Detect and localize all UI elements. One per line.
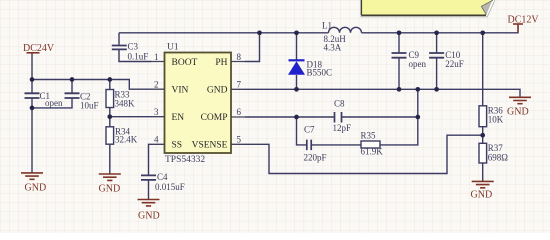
ground under R34 bbox=[99, 174, 121, 180]
svg-text:U1: U1 bbox=[167, 43, 179, 53]
svg-text:5: 5 bbox=[237, 135, 242, 145]
svg-text:7: 7 bbox=[237, 80, 242, 90]
resistor R37 bbox=[479, 143, 508, 163]
wire: DC24V input rail bbox=[31, 53, 33, 80]
ground under C1/C2 bbox=[21, 173, 43, 179]
svg-text:VSENSE: VSENSE bbox=[192, 141, 228, 151]
capacitor C9 bbox=[392, 50, 427, 69]
capacitor C10 bbox=[429, 50, 464, 69]
svg-text:10K: 10K bbox=[488, 115, 504, 125]
wire: R37 bottom to GND bbox=[482, 163, 484, 181]
svg-text:DC12V: DC12V bbox=[508, 15, 540, 26]
wire: PH pin 8 up to rail bbox=[245, 33, 260, 62]
wire: output rail from L1 to DC12V corner bbox=[362, 25, 519, 33]
resistor R33 bbox=[106, 90, 135, 109]
wire: C9 leads bbox=[398, 33, 400, 90]
svg-text:VIN: VIN bbox=[172, 85, 189, 95]
svg-text:GND: GND bbox=[507, 107, 529, 118]
wire: C2 top lead bbox=[71, 80, 73, 93]
svg-text:TPS54332: TPS54332 bbox=[165, 155, 205, 165]
svg-text:61.9K: 61.9K bbox=[361, 147, 384, 157]
svg-text:BOOT: BOOT bbox=[172, 58, 198, 68]
wire: C10 leads bbox=[436, 33, 438, 90]
wire: R33 bottom to EN junction bbox=[109, 108, 111, 127]
wire: C3 top lead bbox=[118, 33, 120, 45]
svg-text:0.1uF: 0.1uF bbox=[128, 52, 149, 62]
wire: SS pin 4 to C4 bbox=[149, 144, 152, 175]
resistor R34 bbox=[106, 127, 138, 145]
wire: comp junction down to R35 bbox=[380, 117, 418, 145]
svg-text:220pF: 220pF bbox=[304, 153, 327, 163]
svg-text:PH: PH bbox=[215, 58, 227, 68]
wire: comp junction up to GND net bbox=[417, 89, 419, 117]
inductor L1 bbox=[322, 21, 362, 53]
svg-text:R37: R37 bbox=[488, 143, 504, 153]
svg-text:L1: L1 bbox=[322, 21, 332, 31]
resistor R35 bbox=[361, 131, 384, 157]
svg-text:open: open bbox=[409, 59, 427, 69]
wire: R36 bottom to fb junction bbox=[482, 127, 484, 144]
svg-text:B550C: B550C bbox=[307, 68, 333, 78]
wire: VSENSE pin 5 feedback bbox=[245, 135, 483, 173]
wire: C7 right to R35 left bbox=[311, 144, 361, 146]
svg-text:8: 8 bbox=[237, 52, 242, 62]
wire: C7 branch from COMP bbox=[297, 117, 307, 145]
wire: R34 bottom to GND bbox=[109, 144, 111, 173]
wire: DC12V port lead bbox=[517, 24, 519, 33]
pin stubs bbox=[152, 62, 246, 145]
wire: R36 top lead from rail bbox=[482, 33, 484, 106]
svg-text:C3: C3 bbox=[128, 42, 139, 52]
svg-text:GND: GND bbox=[138, 211, 160, 222]
wire: D18 bottom lead bbox=[296, 75, 298, 89]
svg-text:C4: C4 bbox=[157, 172, 168, 182]
note (yellow sticky, top right, cut off) bbox=[361, 0, 495, 17]
wire: C2 bottom to junction bbox=[32, 99, 72, 173]
svg-text:1: 1 bbox=[154, 52, 159, 62]
svg-text:GND: GND bbox=[99, 184, 121, 195]
wire: C1 bottom to gnd junction bbox=[31, 99, 33, 108]
capacitor C3 bbox=[112, 42, 148, 62]
wire: EN junction to pin 3 bbox=[110, 116, 152, 118]
capacitor C8 bbox=[333, 99, 352, 134]
ground right of pin7 net bbox=[509, 97, 531, 103]
ground under C4 bbox=[138, 200, 160, 206]
diode D18 bbox=[288, 60, 332, 78]
capacitor C4 bbox=[141, 172, 185, 192]
svg-text:EN: EN bbox=[172, 113, 185, 123]
svg-text:GND: GND bbox=[207, 85, 228, 95]
wire: C4 bottom to GND bbox=[148, 180, 150, 199]
svg-text:10uF: 10uF bbox=[80, 101, 99, 111]
svg-text:open: open bbox=[45, 98, 63, 108]
op IC U1 TPS54332 bbox=[152, 43, 246, 166]
svg-text:4.3A: 4.3A bbox=[324, 43, 342, 53]
svg-text:0.015uF: 0.015uF bbox=[155, 182, 185, 192]
wire: C8 right to comp junction bbox=[342, 116, 418, 118]
wire: C3 bottom to BOOT pin 1 bbox=[119, 50, 152, 62]
svg-text:C7: C7 bbox=[304, 125, 315, 135]
svg-text:6: 6 bbox=[237, 107, 242, 117]
power port DC24V bbox=[23, 43, 55, 54]
ground under R37 bbox=[472, 181, 494, 187]
svg-text:698Ω: 698Ω bbox=[488, 153, 509, 163]
wire: 24V rail to VIN pin 2 bbox=[32, 80, 152, 90]
svg-text:COMP: COMP bbox=[201, 113, 228, 123]
capacitor C7 bbox=[304, 125, 327, 163]
wire: PH/top rail from C3 to L1 bbox=[119, 32, 329, 34]
svg-text:SS: SS bbox=[172, 141, 183, 151]
svg-text:C8: C8 bbox=[334, 99, 345, 109]
capacitor C1 bbox=[25, 91, 63, 108]
svg-text:32.4K: 32.4K bbox=[115, 135, 138, 145]
svg-text:348K: 348K bbox=[115, 99, 136, 109]
wire: GND net pin7 to right earth bbox=[245, 89, 520, 97]
svg-text:GND: GND bbox=[25, 183, 47, 194]
svg-text:GND: GND bbox=[471, 190, 493, 201]
svg-text:12pF: 12pF bbox=[333, 123, 352, 133]
power port DC12V bbox=[508, 15, 540, 26]
wire: C1 top lead bbox=[31, 80, 33, 93]
svg-text:2: 2 bbox=[154, 80, 159, 90]
capacitor C2 bbox=[65, 92, 99, 111]
wire: D18 top lead bbox=[296, 33, 298, 60]
wire: COMP pin 6 to C8 bbox=[245, 116, 334, 118]
svg-text:22uF: 22uF bbox=[445, 59, 464, 69]
resistor R36 bbox=[479, 106, 504, 127]
svg-text:R35: R35 bbox=[361, 131, 377, 141]
wire: R33 top lead bbox=[109, 80, 111, 90]
svg-text:4: 4 bbox=[154, 135, 159, 145]
svg-text:3: 3 bbox=[154, 107, 159, 117]
